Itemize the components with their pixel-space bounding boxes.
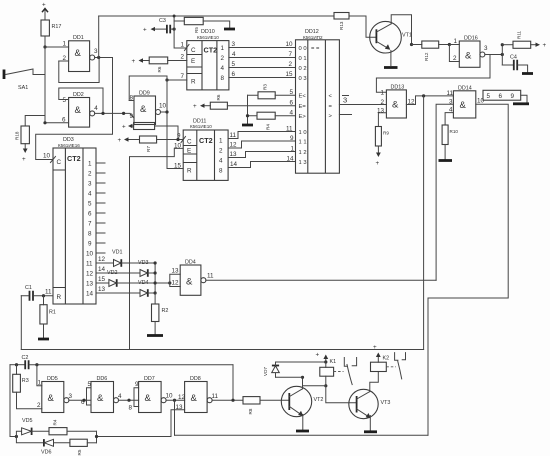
svg-text:9: 9 (290, 135, 294, 142)
switch SA1 (4, 69, 45, 91)
svg-text:&: & (145, 393, 152, 404)
svg-text:C: C (57, 159, 62, 166)
relay coil K2 (371, 362, 387, 371)
svg-text:6: 6 (88, 211, 92, 218)
wire timing join node (95, 431, 98, 443)
svg-text:2: 2 (381, 99, 385, 106)
svg-text:1 3: 1 3 (299, 160, 307, 166)
diode VD7 flyback (263, 362, 326, 377)
counter DD10 K561IE10 (187, 29, 229, 90)
wire DD13 out to DD14 pin11 (406, 96, 453, 105)
wire DD9 out to reset net (161, 110, 169, 113)
svg-text:+: + (373, 344, 377, 351)
svg-text:+: + (376, 160, 380, 167)
svg-text:R17: R17 (52, 24, 62, 30)
svg-text:R: R (57, 294, 62, 301)
svg-text:10: 10 (43, 153, 51, 160)
svg-text:3: 3 (69, 393, 73, 400)
resistor R2 (152, 293, 169, 334)
op-amp DD5 NAND gate (37, 376, 73, 413)
wire diode OR bus (154, 261, 172, 294)
node R12 left (410, 43, 413, 46)
svg-text:R13: R13 (339, 21, 344, 30)
wire DD1 feedback loop (59, 58, 99, 83)
svg-text:7: 7 (289, 51, 293, 58)
wire reset net vertical (166, 76, 168, 169)
supply arrow below R18 (22, 144, 28, 163)
wire relay common rail (175, 434, 429, 436)
resistor R11 to supply (502, 30, 546, 49)
svg-text:4: 4 (118, 393, 122, 400)
svg-text:3: 3 (232, 41, 236, 48)
node DD13 out (422, 94, 425, 97)
svg-text:0 1: 0 1 (299, 56, 307, 62)
svg-text:DD14: DD14 (458, 86, 472, 92)
resistor R16 upper left of DD11 (122, 123, 178, 140)
svg-text:VD7: VD7 (263, 367, 268, 376)
node DD16 input (448, 43, 451, 46)
svg-text:1: 1 (63, 41, 67, 48)
svg-text:VD1: VD1 (112, 250, 123, 256)
svg-text:5: 5 (487, 93, 491, 100)
node DD3 R pin 11 (42, 289, 52, 298)
wire R3 R4 common to ground (246, 95, 249, 124)
svg-text:2: 2 (37, 402, 41, 409)
resistor R10 (442, 125, 458, 159)
wire DD7 input jumper (129, 381, 140, 412)
resistor R15 to E-greater input (248, 110, 296, 131)
svg-text:C: C (191, 47, 196, 54)
svg-text:14: 14 (86, 291, 94, 298)
wire top rail (99, 15, 334, 17)
svg-text:&: & (75, 48, 82, 59)
svg-text:6: 6 (290, 100, 294, 107)
svg-text:2: 2 (88, 171, 92, 178)
svg-text:VT2: VT2 (314, 397, 324, 403)
capacitor C3 with supply arrow (143, 18, 174, 34)
svg-text:12: 12 (98, 256, 106, 263)
svg-text:K2: K2 (383, 356, 390, 362)
capacitor C1 (21, 285, 53, 301)
svg-text:E<: E< (299, 94, 307, 100)
wire VT1 emitter to ground (390, 51, 392, 66)
node DD5 out (83, 399, 86, 402)
svg-text:R12: R12 (424, 52, 429, 61)
diode row 11 pin12 (96, 256, 155, 267)
svg-text:1: 1 (88, 161, 92, 168)
wire left rail bottom (10, 365, 16, 437)
svg-text:10: 10 (86, 251, 94, 258)
svg-text:= =: = = (311, 46, 320, 52)
svg-text:0 2: 0 2 (299, 66, 307, 72)
svg-text:C1: C1 (25, 285, 32, 291)
ground C4 (522, 72, 533, 75)
ground R1 (38, 338, 49, 341)
svg-text:R4: R4 (266, 124, 271, 130)
ground VT2 (296, 430, 309, 433)
svg-text:4: 4 (219, 158, 223, 165)
wire DD9 pin8 stub (129, 100, 134, 102)
svg-text:VD6: VD6 (41, 450, 52, 456)
op-amp DD14 NAND gate (447, 86, 485, 119)
svg-text:+: + (143, 27, 147, 34)
svg-text:11: 11 (230, 132, 237, 139)
supply arrow K1 (316, 352, 337, 366)
node DD1 out (97, 56, 100, 59)
svg-text:2: 2 (219, 148, 223, 155)
svg-text:1: 1 (291, 146, 295, 153)
resistor R17 (41, 20, 61, 36)
svg-text:SA1: SA1 (18, 85, 28, 91)
svg-text:+: + (316, 352, 320, 359)
svg-text:&: & (75, 105, 82, 116)
svg-text:VT3: VT3 (381, 400, 391, 406)
wire DD4 out long feedback to DD14 (206, 279, 436, 281)
node DD5 pin1 riser (35, 363, 38, 366)
svg-text:5: 5 (88, 201, 92, 208)
wire DD6 input jumper (81, 381, 92, 406)
svg-text:E=: E= (299, 104, 307, 110)
wire K1 bottom to collector (303, 385, 326, 387)
counter DD11 K561IE10 (183, 119, 228, 181)
dashed link K2 contact (386, 366, 396, 368)
svg-text:14: 14 (287, 156, 295, 163)
svg-text:R8: R8 (248, 408, 253, 414)
wire DD8 pin13 from timing network (97, 394, 186, 437)
svg-text:VD3: VD3 (138, 260, 149, 266)
svg-text:R18: R18 (15, 131, 20, 140)
svg-text:12: 12 (172, 280, 180, 287)
wire DD16 pins tied (449, 45, 459, 62)
svg-text:15: 15 (98, 276, 106, 283)
svg-text:DD2: DD2 (73, 92, 84, 98)
svg-text:CT2: CT2 (199, 136, 213, 145)
svg-text:13: 13 (172, 268, 180, 275)
resistor R12 (412, 41, 450, 61)
dashed link K1 contact (334, 371, 344, 373)
svg-text:11: 11 (286, 126, 293, 133)
wire DD12 greater stub (339, 114, 351, 116)
diode row 13 pin15 (96, 276, 170, 287)
wire DD2 pin5 feedback (59, 88, 103, 113)
wire DD13 out down to reset rail (423, 96, 425, 350)
svg-text:CT2: CT2 (204, 46, 218, 55)
svg-text:R9: R9 (383, 131, 389, 136)
svg-text:9: 9 (130, 113, 134, 120)
wire DD16 out feedback wrap to DD13 pin1 (376, 55, 490, 93)
svg-text:5: 5 (290, 89, 294, 96)
resistor R6 to DD10 E (132, 54, 187, 73)
wire VT1 collector (391, 15, 411, 45)
terminal block pins 5 6 9 (483, 90, 527, 102)
wire oscillator feedback from DD8 out (232, 365, 234, 401)
svg-text:5: 5 (232, 61, 236, 68)
svg-text:9: 9 (511, 93, 515, 100)
wire DD14 pin3 from DD4 (436, 104, 453, 280)
svg-text:1: 1 (38, 380, 42, 387)
diode VD6 reversed (16, 437, 70, 456)
svg-text:10: 10 (159, 103, 167, 110)
node R17/DD1 junction (43, 45, 46, 48)
wire R17 to node (44, 36, 46, 47)
svg-text:+: + (193, 103, 197, 110)
svg-text:+: + (118, 137, 122, 144)
svg-text:DD6: DD6 (97, 376, 108, 382)
wire SA1 rail vertical (44, 47, 46, 123)
svg-text:DD7: DD7 (144, 376, 155, 382)
node pin6 (43, 121, 46, 124)
resistor R3 (13, 365, 42, 409)
svg-text:1 0: 1 0 (299, 130, 307, 136)
node DD7 out (173, 399, 176, 402)
svg-text:CT2: CT2 (67, 154, 81, 163)
svg-text:R4: R4 (53, 419, 58, 425)
svg-text:14: 14 (98, 266, 106, 273)
wire DD1 out to top rail (98, 16, 100, 58)
svg-text:13: 13 (98, 286, 106, 293)
wire R18 tap (25, 116, 45, 127)
svg-text:К561ИЕ10: К561ИЕ10 (197, 35, 219, 40)
svg-text:5: 5 (63, 97, 67, 104)
wire R11 C4 node (501, 43, 504, 65)
svg-text:10: 10 (286, 41, 294, 48)
op-amp DD8 NAND gate (185, 376, 219, 413)
svg-text:11: 11 (45, 289, 52, 296)
svg-text:12: 12 (86, 271, 94, 278)
resistor R4 timing (49, 419, 97, 435)
svg-text:8: 8 (221, 75, 225, 82)
svg-text:9: 9 (177, 133, 181, 140)
node DD2 out b (122, 112, 125, 115)
svg-text:R3: R3 (22, 378, 29, 384)
op-amp DD1 NAND gate (63, 35, 99, 72)
svg-text:&: & (191, 393, 198, 404)
svg-text:1: 1 (221, 45, 225, 52)
svg-text:11: 11 (447, 90, 454, 97)
svg-text:&: & (460, 100, 467, 111)
svg-text:K1: K1 (330, 359, 337, 365)
svg-text:7: 7 (88, 221, 92, 228)
svg-text:1 1: 1 1 (299, 140, 307, 146)
resistor R8 base VT2 (243, 397, 289, 415)
wire DD9 pin8 riser (129, 76, 167, 101)
wire DD13 pin13 to R9 (378, 113, 386, 127)
wire DD14 out long route down (428, 104, 508, 435)
svg-text:6: 6 (499, 93, 503, 100)
transistor VT1 (370, 21, 412, 53)
DD3 output stubs (96, 163, 105, 253)
supply arrow K2 (373, 344, 389, 362)
svg-text:C3: C3 (159, 18, 166, 24)
wire DD12 equal output to DD13 (339, 96, 386, 105)
wire DD2 out to DD9 (95, 113, 134, 118)
wire DD1 pin2 (59, 60, 69, 62)
capacitor C4 (502, 55, 527, 73)
diode VD5 (16, 418, 49, 437)
svg-text:0 0: 0 0 (299, 46, 307, 52)
svg-text:4: 4 (290, 110, 294, 117)
op-amp DD16 NAND gate (453, 36, 488, 68)
svg-text:3: 3 (343, 96, 347, 105)
diode row 12 pin14 (96, 266, 155, 277)
svg-text:&: & (392, 100, 399, 111)
svg-text:13: 13 (230, 151, 238, 158)
svg-text:3: 3 (484, 45, 488, 52)
svg-text:6: 6 (81, 399, 85, 406)
resistor R9 (375, 127, 389, 168)
wire VT2 emitter to ground (302, 415, 304, 430)
svg-text:13: 13 (86, 281, 94, 288)
wire DD5 out (69, 399, 91, 401)
relay coil K1 (320, 362, 334, 386)
svg-text:10: 10 (166, 393, 174, 400)
svg-text:R11: R11 (517, 30, 522, 39)
svg-text:11: 11 (207, 273, 214, 280)
wire C1 left down to long rail (20, 296, 22, 350)
svg-text:DD8: DD8 (190, 376, 201, 382)
comparator DD12 K561IP2 (296, 29, 340, 173)
svg-text:E: E (187, 148, 191, 155)
resistor R6b to E-equal input (193, 94, 296, 110)
node VT2 collector (301, 376, 304, 379)
resistor R7 to DD11 clock (118, 136, 184, 152)
wire DD16 out (485, 54, 502, 56)
svg-text:C4: C4 (510, 55, 517, 61)
svg-text:2: 2 (289, 61, 293, 68)
svg-text:7: 7 (181, 73, 185, 80)
svg-text:R3: R3 (263, 84, 268, 90)
svg-text:R6: R6 (216, 94, 221, 100)
resistor R14 to E-less input (248, 84, 296, 99)
svg-text:2: 2 (221, 55, 225, 62)
svg-text:8: 8 (219, 168, 223, 175)
node K1 bottom (324, 384, 327, 387)
svg-text:0 3: 0 3 (299, 76, 307, 82)
transistor VT3 (349, 389, 391, 418)
wire node to DD1 pin1 (45, 46, 69, 48)
pin 10 clock input slash (43, 153, 56, 163)
ground R2 (147, 334, 163, 337)
pin 1 slash DD10 (181, 42, 190, 51)
svg-text:&: & (465, 51, 472, 62)
svg-text:VT1: VT1 (402, 33, 412, 39)
svg-text:&: & (140, 104, 147, 115)
svg-text:1: 1 (219, 138, 223, 145)
resistor R5 timing (70, 439, 97, 455)
ground bar R5 (224, 28, 235, 31)
svg-text:+: + (22, 156, 26, 163)
svg-text:R10: R10 (450, 129, 459, 134)
svg-text:4: 4 (221, 65, 225, 72)
ground VT3 (364, 430, 377, 433)
svg-text:+: + (42, 2, 46, 9)
svg-text:2: 2 (453, 55, 457, 62)
ground VT1 (384, 66, 398, 69)
svg-text:VD2: VD2 (107, 270, 118, 276)
svg-text:1: 1 (381, 90, 385, 97)
svg-text:DD5: DD5 (47, 376, 58, 382)
svg-text:15: 15 (286, 71, 294, 78)
svg-text:&: & (97, 393, 104, 404)
counter DD3 K561IE16 (53, 137, 96, 304)
op-amp DD7 NAND gate (139, 376, 173, 413)
pin 9 slash DD11 (177, 133, 186, 143)
node C3 (173, 28, 176, 31)
svg-text:R2: R2 (162, 308, 169, 314)
svg-text:R1: R1 (49, 310, 56, 316)
svg-text:DD4: DD4 (185, 260, 196, 266)
svg-text:1: 1 (181, 42, 185, 49)
svg-text:&: & (186, 277, 193, 288)
svg-text:VD5: VD5 (22, 418, 33, 424)
op-amp DD2 NAND gate (62, 92, 98, 127)
svg-text:E: E (191, 58, 195, 65)
contact K1 (344, 358, 356, 385)
node DD6 out (127, 399, 130, 402)
svg-text:R6: R6 (157, 66, 162, 72)
diode row 14 pin13 (96, 286, 155, 297)
resistor R5 (174, 17, 230, 33)
ground R10 (439, 159, 453, 162)
svg-text:К561ИЕ10: К561ИЕ10 (190, 124, 212, 129)
svg-text:1 2: 1 2 (299, 150, 307, 156)
transistor VT2 (281, 386, 323, 416)
svg-text:+: + (122, 124, 126, 131)
op-amp DD6 NAND gate (91, 376, 122, 413)
ground bar pins569 (513, 102, 529, 105)
svg-text:2: 2 (181, 54, 185, 61)
svg-text:4: 4 (94, 105, 98, 112)
resistor R13 in top rail (334, 13, 349, 31)
svg-text:3: 3 (94, 48, 98, 55)
node DD8 out (231, 399, 234, 402)
wire DD11 R pin15 (167, 163, 183, 170)
node DD2 out a (101, 112, 104, 115)
wire VT2 collector (302, 377, 304, 389)
svg-text:+: + (132, 58, 136, 65)
svg-text:E>: E> (299, 114, 307, 120)
wire DD8 out (212, 399, 243, 401)
ground bar comparator resistors (242, 124, 253, 127)
svg-text:4: 4 (232, 51, 236, 58)
svg-text:R: R (191, 79, 196, 86)
op-amp DD13 NAND gate (377, 85, 415, 119)
svg-text:R5: R5 (194, 27, 199, 33)
wire DD6 out (119, 399, 139, 401)
svg-text:К561ИЕ16: К561ИЕ16 (58, 143, 80, 148)
wire DD7 out (166, 399, 185, 401)
svg-text:R7: R7 (146, 146, 151, 152)
supply plus top-left (42, 2, 48, 21)
wire VT3 emitter to ground (369, 416, 371, 431)
wire DD2 pin6 (45, 122, 69, 124)
bus DD11 outputs to DD12 (228, 126, 295, 169)
svg-text:11: 11 (212, 393, 219, 400)
wire DD5 pin1 (37, 365, 42, 386)
wire VT3 base from node (326, 386, 357, 403)
node timing branch left (15, 435, 18, 438)
svg-text:C2: C2 (22, 355, 29, 361)
contact K2 (395, 353, 406, 379)
svg-text:14: 14 (230, 161, 238, 168)
svg-text:3: 3 (88, 181, 92, 188)
svg-text:+: + (543, 42, 547, 49)
wire R13 to VT1 base (349, 16, 376, 37)
svg-text:8: 8 (129, 405, 133, 412)
svg-text:11: 11 (86, 261, 93, 268)
op-amp DD4 NAND gate (170, 260, 214, 296)
svg-text:8: 8 (88, 231, 92, 238)
